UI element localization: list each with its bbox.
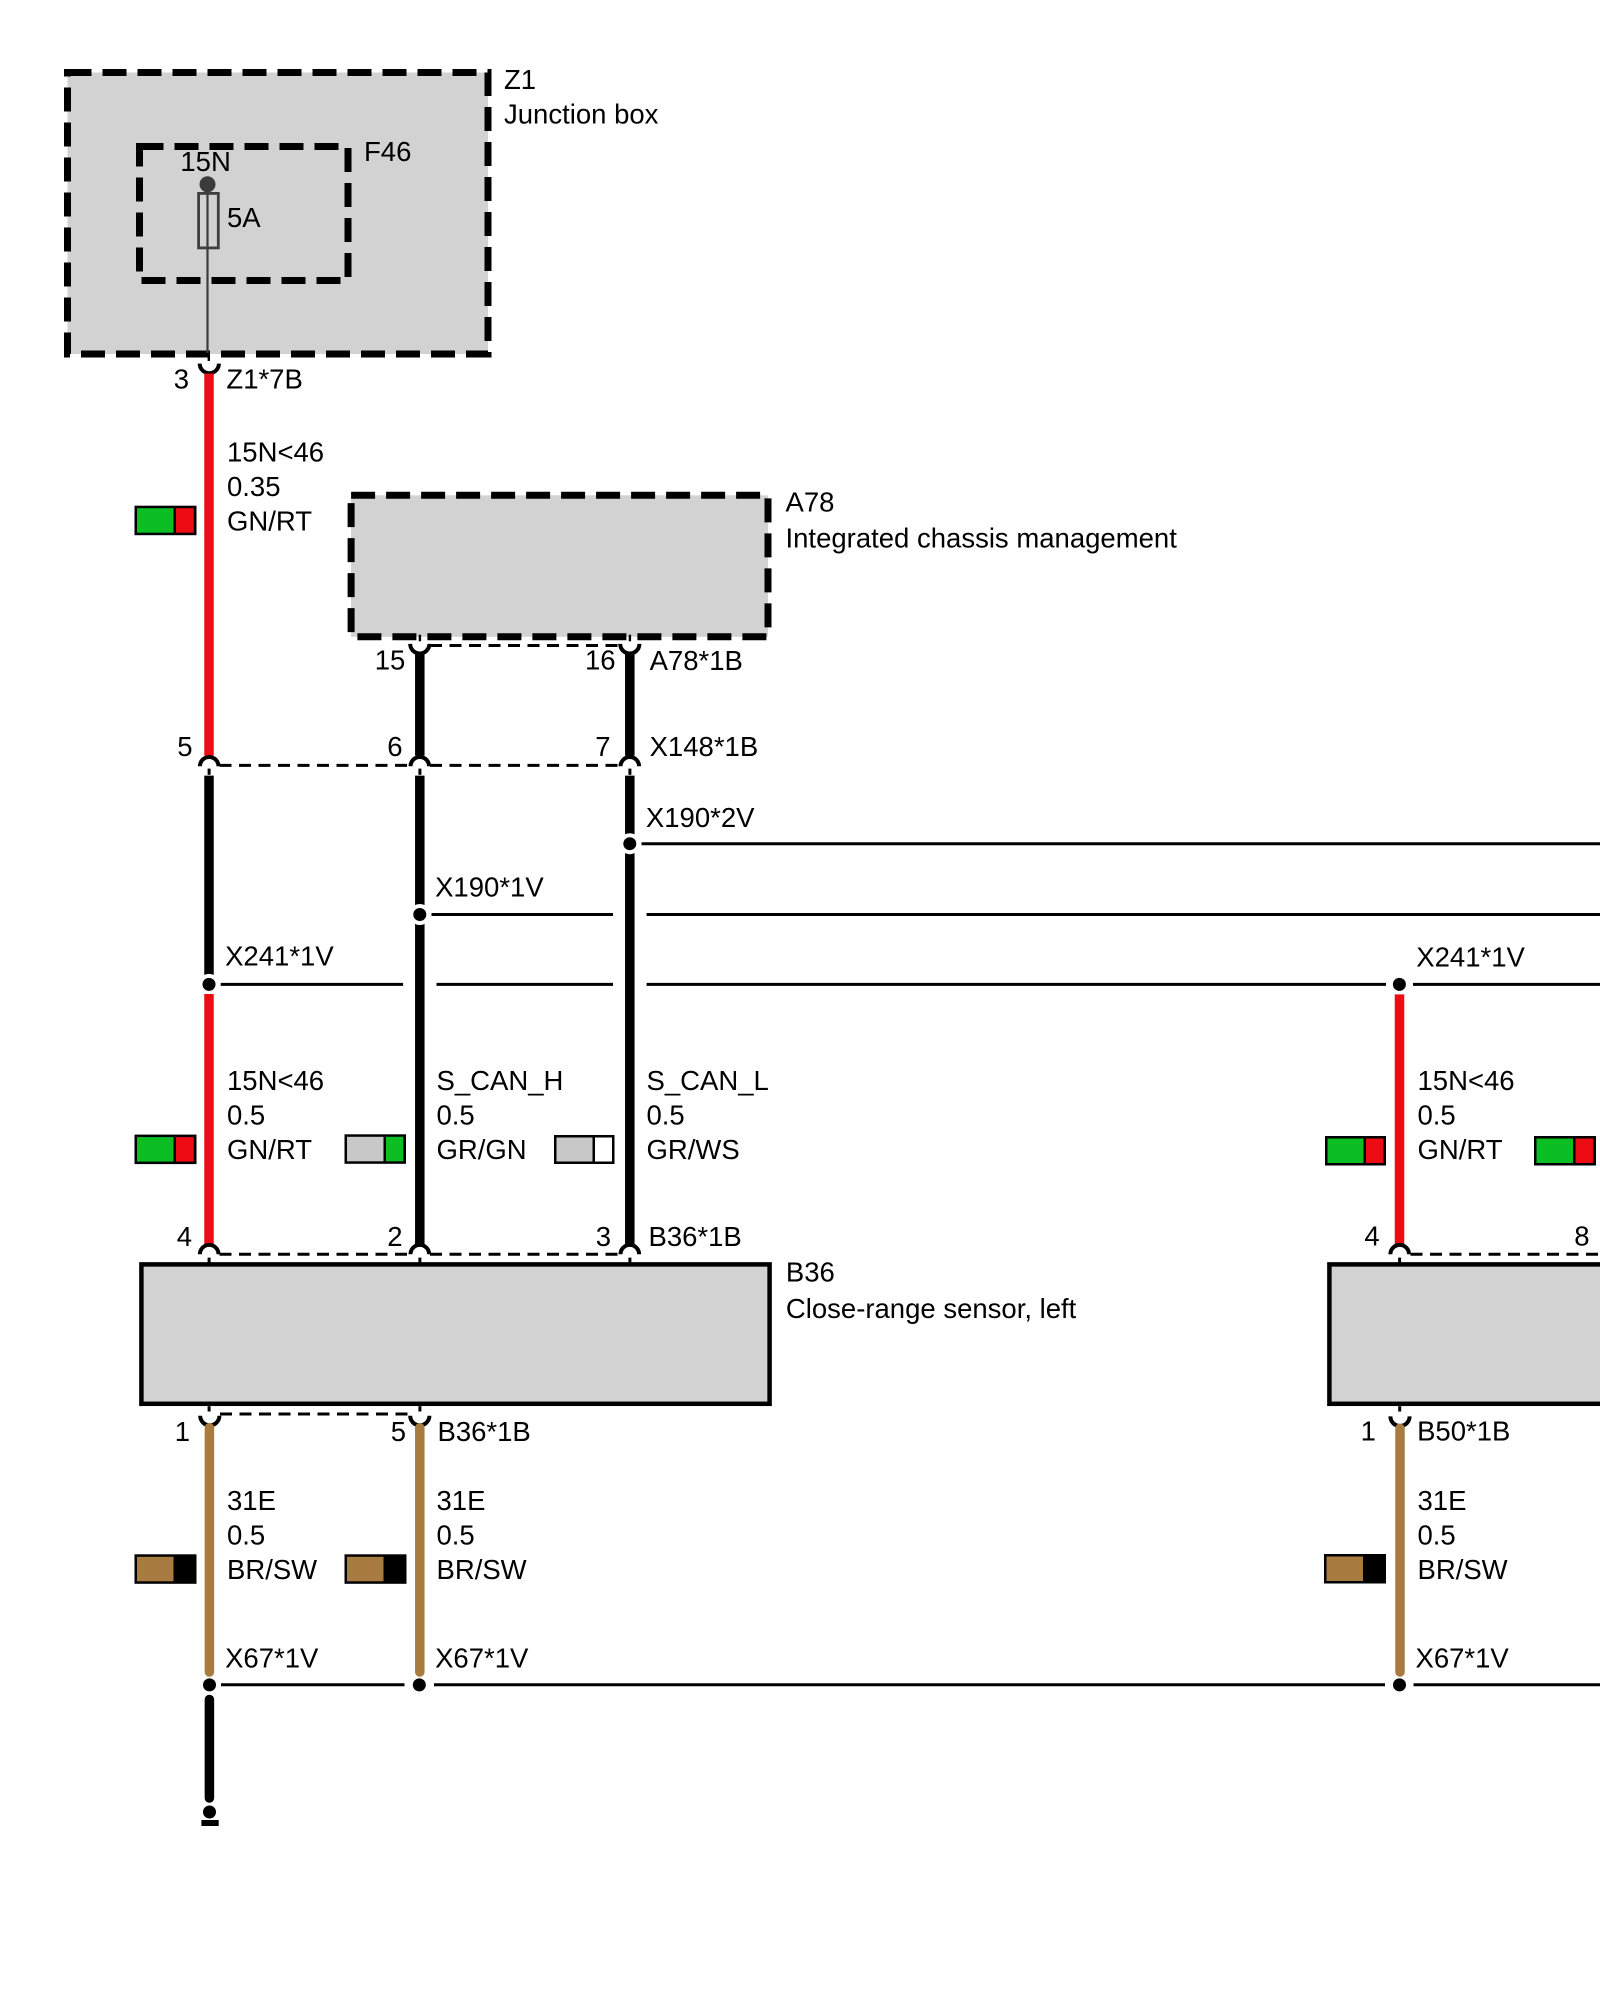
svg-text:Close-range sensor, left: Close-range sensor, left	[786, 1293, 1077, 1324]
svg-text:15: 15	[375, 645, 406, 676]
svg-text:B36: B36	[786, 1257, 835, 1288]
svg-text:15N<46: 15N<46	[1418, 1065, 1515, 1096]
connector bridge A78*1B	[430, 644, 620, 647]
svg-text:0.35: 0.35	[227, 471, 281, 502]
label B36 Close-range sensor, left	[786, 1257, 1077, 1325]
label A78 Integrated chassis management	[786, 486, 1178, 553]
wire 15N&lt;46 GN/RT Z1 to X148	[204, 374, 214, 756]
svg-text:X190*1V: X190*1V	[435, 871, 544, 902]
svg-text:31E: 31E	[227, 1485, 276, 1516]
svg-text:B36*1B: B36*1B	[438, 1416, 531, 1447]
svg-text:B36*1B: B36*1B	[649, 1221, 742, 1252]
wire label S_CAN_H 0.5 GR/GN	[437, 1065, 564, 1165]
svg-text:A78: A78	[786, 486, 835, 517]
connector B36*1B pin 4	[200, 1245, 219, 1263]
ground wire	[205, 1700, 215, 1799]
fuse carrier box F46	[140, 147, 349, 281]
svg-text:0.5: 0.5	[647, 1099, 685, 1130]
wire label 31E 0.5 BR/SW col2	[437, 1485, 527, 1585]
color code GN/RT	[135, 506, 197, 536]
wire S_CAN_H A78 to X148	[415, 653, 425, 755]
svg-text:S_CAN_H: S_CAN_H	[437, 1065, 564, 1096]
svg-text:6: 6	[387, 731, 402, 762]
connector bridge B36*1B bottom	[220, 1413, 410, 1416]
wire S_CAN_L X148 to B36	[625, 776, 635, 1246]
svg-text:GR/WS: GR/WS	[647, 1134, 740, 1165]
connector X148*1B pin 5	[200, 757, 219, 775]
connector A78*1B pin 15	[410, 635, 429, 654]
svg-text:7: 7	[595, 731, 610, 762]
wire black X148 to X241 junction	[204, 776, 214, 975]
node X67*1V right	[1393, 1678, 1406, 1691]
wire 31E BR/SW B50 pin1	[1395, 1428, 1405, 1672]
svg-text:Z1: Z1	[504, 64, 536, 95]
connector B36*1B pin 3	[621, 1245, 640, 1263]
connector A78*1B pin 16	[620, 635, 639, 654]
svg-text:BR/SW: BR/SW	[1418, 1554, 1508, 1585]
fuse F46 5A	[199, 193, 219, 248]
svg-text:GN/RT: GN/RT	[1418, 1134, 1503, 1165]
svg-text:GR/GN: GR/GN	[437, 1134, 527, 1165]
wire label 15N&lt;46 0.35 GN/RT	[227, 437, 324, 537]
ECU box A78	[351, 495, 768, 637]
color code GR/GN	[345, 1134, 407, 1164]
svg-text:0.5: 0.5	[1418, 1520, 1456, 1551]
wire fuse internal	[206, 188, 208, 353]
color code BR/SW right	[1324, 1554, 1386, 1584]
svg-text:5: 5	[177, 731, 192, 762]
connector Z1*7B pin 3	[200, 354, 219, 373]
connector B50*1B pin 4	[1390, 1245, 1409, 1263]
svg-text:31E: 31E	[437, 1485, 486, 1516]
node 15N	[200, 176, 216, 192]
node X190*2V	[619, 833, 640, 854]
svg-text:5A: 5A	[227, 202, 261, 233]
connector B36*1B pin 2	[411, 1245, 430, 1263]
svg-text:0.5: 0.5	[437, 1520, 475, 1551]
wire label 31E 0.5 BR/SW col1	[227, 1485, 317, 1585]
junction box Z1	[68, 73, 489, 355]
node X241*1V left	[199, 974, 220, 995]
svg-text:0.5: 0.5	[227, 1520, 265, 1551]
net line X190*1V	[432, 913, 1600, 916]
svg-text:F46: F46	[364, 136, 411, 167]
color code GN/RT left	[135, 1135, 197, 1165]
svg-text:1: 1	[1361, 1416, 1376, 1447]
svg-text:0.5: 0.5	[437, 1099, 475, 1130]
connector X148*1B pin 6	[411, 757, 430, 775]
svg-text:15N: 15N	[180, 146, 230, 177]
svg-text:X67*1V: X67*1V	[1416, 1642, 1510, 1673]
node X241*1V right	[1389, 974, 1410, 995]
svg-text:B50*1B: B50*1B	[1417, 1416, 1510, 1447]
color code GN/RT right	[1325, 1136, 1386, 1166]
svg-text:X67*1V: X67*1V	[225, 1642, 319, 1673]
svg-text:X241*1V: X241*1V	[225, 940, 334, 971]
sensor box B36	[141, 1264, 769, 1403]
svg-text:3: 3	[174, 363, 189, 394]
wire 15N&lt;46 GN/RT X241 to B36	[204, 994, 214, 1246]
svg-text:X148*1B: X148*1B	[650, 731, 759, 762]
wire 15N&lt;46 GN/RT X241 to B50	[1395, 994, 1405, 1246]
svg-text:0.5: 0.5	[1418, 1099, 1456, 1130]
connector B50*1B pin 1	[1390, 1406, 1409, 1426]
color code BR/SW col2	[345, 1554, 407, 1584]
svg-text:S_CAN_L: S_CAN_L	[647, 1065, 769, 1096]
svg-text:X67*1V: X67*1V	[435, 1642, 529, 1673]
connector B36*1B pin 5	[410, 1406, 429, 1425]
net line X190*2V	[642, 842, 1600, 845]
net line X241*1V	[221, 983, 1600, 986]
color code BR/SW col1	[135, 1554, 197, 1584]
connector X148*1B pin 7	[621, 757, 640, 775]
color code GN/RT pin8	[1534, 1136, 1596, 1166]
node X67*1V col2	[413, 1678, 426, 1691]
wire label 15N&lt;46 0.5 GN/RT right	[1418, 1065, 1515, 1165]
svg-text:8: 8	[1574, 1221, 1589, 1252]
wire 31E BR/SW B36 pin1	[205, 1428, 215, 1672]
svg-text:1: 1	[175, 1416, 190, 1447]
ground symbol	[201, 1820, 218, 1826]
label Z1 Junction box	[504, 64, 659, 130]
svg-text:5: 5	[391, 1416, 406, 1447]
color code GR/WS	[554, 1135, 615, 1164]
wire S_CAN_L A78 to X148	[625, 653, 635, 755]
wire label 31E 0.5 BR/SW right	[1418, 1485, 1508, 1585]
connector bridge B50*1B top	[1411, 1253, 1600, 1256]
wire label 15N&lt;46 0.5 GN/RT left	[227, 1065, 324, 1165]
svg-text:16: 16	[585, 645, 616, 676]
svg-text:0.5: 0.5	[227, 1099, 265, 1130]
net line X67*1V	[221, 1683, 1600, 1686]
node X67*1V col1	[203, 1678, 216, 1691]
ground node	[203, 1806, 216, 1819]
node X190*1V	[409, 904, 430, 925]
svg-text:15N<46: 15N<46	[227, 437, 324, 468]
svg-text:Z1*7B: Z1*7B	[226, 363, 302, 394]
svg-text:X190*2V: X190*2V	[646, 802, 755, 833]
svg-text:3: 3	[596, 1221, 611, 1252]
connector B36*1B pin 1	[200, 1406, 219, 1425]
wire label S_CAN_L 0.5 GR/WS	[647, 1065, 769, 1165]
svg-text:15N<46: 15N<46	[227, 1065, 324, 1096]
svg-text:2: 2	[387, 1221, 402, 1252]
svg-text:31E: 31E	[1418, 1485, 1467, 1516]
svg-text:4: 4	[177, 1221, 192, 1252]
wire 31E BR/SW B36 pin5	[415, 1428, 425, 1672]
svg-text:Integrated chassis management: Integrated chassis management	[786, 522, 1178, 553]
svg-text:X241*1V: X241*1V	[1416, 941, 1525, 972]
svg-text:BR/SW: BR/SW	[227, 1554, 317, 1585]
svg-text:Junction box: Junction box	[504, 99, 659, 130]
svg-text:GN/RT: GN/RT	[227, 505, 312, 536]
wire S_CAN_H X148 to B36	[415, 776, 425, 1246]
connector bridge X148*1B	[220, 764, 621, 767]
svg-text:4: 4	[1364, 1221, 1379, 1252]
svg-text:A78*1B: A78*1B	[650, 645, 743, 676]
svg-text:GN/RT: GN/RT	[227, 1134, 312, 1165]
connector bridge B36*1B top	[220, 1253, 621, 1256]
svg-text:BR/SW: BR/SW	[437, 1554, 527, 1585]
sensor box B50	[1329, 1264, 1600, 1403]
